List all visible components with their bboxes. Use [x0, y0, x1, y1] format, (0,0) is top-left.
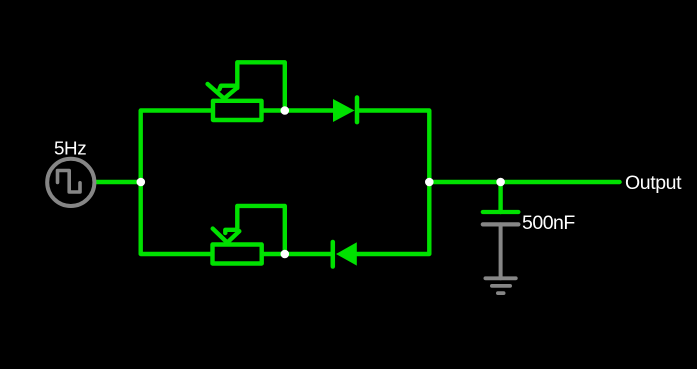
- svg-text:Output: Output: [625, 172, 682, 194]
- svg-text:500nF: 500nF: [522, 212, 575, 234]
- svg-text:5Hz: 5Hz: [54, 137, 86, 158]
